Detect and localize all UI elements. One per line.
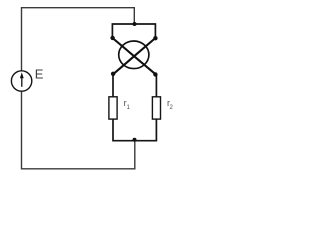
svg-text:1: 1 bbox=[127, 105, 131, 111]
svg-text:E: E bbox=[35, 67, 44, 82]
svg-text:2: 2 bbox=[170, 105, 174, 111]
